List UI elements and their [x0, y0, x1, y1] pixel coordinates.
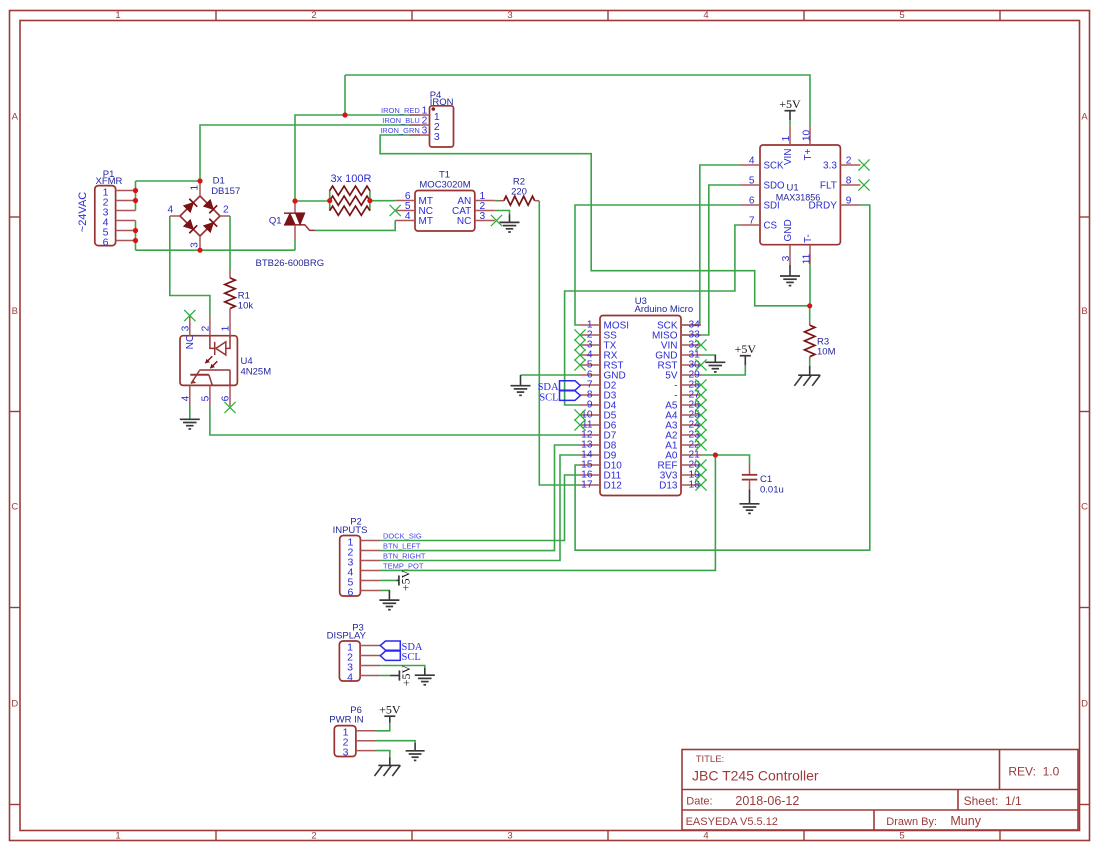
wire P1 pins 4-6 bus	[135, 221, 137, 251]
svg-text:0.01u: 0.01u	[760, 485, 784, 496]
svg-text:1: 1	[221, 325, 232, 331]
svg-text:SCL: SCL	[402, 652, 421, 663]
svg-text:PWR IN: PWR IN	[329, 714, 363, 725]
svg-text:5: 5	[749, 175, 755, 186]
svg-text:D: D	[11, 698, 18, 709]
diode D1 lower-right (3 to 2)	[204, 223, 214, 233]
svg-text:10: 10	[801, 130, 812, 142]
svg-text:1: 1	[115, 10, 120, 21]
svg-text:2018-06-12: 2018-06-12	[735, 794, 799, 808]
svg-text:EASYEDA V5.5.12: EASYEDA V5.5.12	[686, 816, 778, 828]
junction D1 pin1 top	[197, 178, 202, 183]
no-connect X U3 right pin	[695, 359, 706, 370]
svg-text:C1: C1	[760, 474, 772, 485]
wire P2 pin5 to +5V	[380, 579, 396, 581]
diode D1 lower-left (4 to 3)	[184, 220, 194, 230]
junction A0 / TEMP_POT / C1	[713, 452, 718, 457]
svg-text:IRON_RED: IRON_RED	[381, 106, 420, 115]
svg-text:1: 1	[115, 831, 120, 842]
svg-text:Drawn By:: Drawn By:	[886, 816, 937, 828]
net flag SCL at U3 D3	[560, 391, 581, 401]
svg-text:VIN: VIN	[783, 149, 794, 166]
junction T- / R3	[807, 303, 812, 308]
svg-text:BTB26-600BRG: BTB26-600BRG	[256, 258, 325, 269]
wire U3 GND pin31 to ground	[701, 355, 715, 359]
svg-text:D12: D12	[604, 481, 623, 492]
svg-text:~24VAC: ~24VAC	[77, 192, 89, 233]
chassis ground at R3	[809, 366, 811, 375]
svg-text:Sheet: 1/1: Sheet: 1/1	[964, 794, 1022, 808]
wire U4 pin5 to U3 D7 pin12	[210, 406, 580, 435]
no-connect X U3 left pin	[574, 329, 585, 340]
svg-text:4: 4	[168, 205, 174, 216]
junction Q1 MT2 / IRON_RED	[292, 198, 297, 203]
svg-text:9: 9	[846, 195, 852, 206]
svg-text:SDI: SDI	[764, 201, 780, 212]
svg-text:SDO: SDO	[764, 181, 785, 192]
net flag SDA at U3 D2	[560, 381, 581, 391]
no-connect X U3 right pin	[695, 439, 706, 450]
diode D1 upper-left (4 to 1)	[184, 203, 194, 213]
svg-text:3x 100R: 3x 100R	[331, 173, 372, 185]
diode D1 upper-right (1 to 2)	[204, 200, 214, 210]
svg-text:Arduino Micro: Arduino Micro	[635, 304, 694, 315]
wire U1 T- to R3 junction	[809, 265, 811, 306]
net flag SCL at P3 pin2	[380, 651, 400, 660]
svg-text:BTN_LEFT: BTN_LEFT	[383, 541, 421, 550]
no-connect X T1 pin5	[390, 205, 401, 216]
no-connect X U3 right pin	[695, 469, 706, 480]
svg-text:U4: U4	[241, 356, 253, 367]
wire +5V rail to MAX31856 T+ via top	[345, 75, 810, 126]
svg-text:B: B	[12, 306, 18, 317]
wire IRON_RED net: P4 pin1 to Q1 MT2	[295, 115, 420, 201]
svg-text:DRDY: DRDY	[809, 201, 838, 212]
ground T1 CAT	[509, 215, 511, 223]
svg-text:5: 5	[899, 831, 904, 842]
wire TEMP_POT net: P2 pin4 to A0 junction	[380, 455, 715, 570]
svg-text:2: 2	[311, 10, 316, 21]
svg-text:4: 4	[405, 211, 411, 222]
svg-text:SDA: SDA	[538, 382, 559, 393]
wire bottom rail P1 to D1 pin3 to Q1 MT1	[136, 249, 296, 251]
no-connect X U3 right pin	[695, 339, 706, 350]
ground U3 GND pin31	[714, 355, 716, 362]
svg-text:D13: D13	[659, 481, 678, 492]
svg-text:4: 4	[347, 671, 353, 683]
no-connect X U3 right pin	[695, 429, 706, 440]
svg-text:REV: 1.0: REV: 1.0	[1008, 765, 1059, 779]
svg-text:4: 4	[180, 395, 191, 401]
wire BTN_RIGHT net: P2 pin3 to U3 D9 pin14	[380, 455, 580, 561]
svg-text:2: 2	[223, 205, 229, 216]
no-connect X U3 right pin	[695, 479, 706, 490]
no-connect X U3 right pin	[695, 419, 706, 430]
svg-text:NC: NC	[457, 216, 471, 227]
wire P3 pin4 to +5V	[380, 675, 390, 677]
svg-text:TEMP_POT: TEMP_POT	[383, 561, 424, 570]
svg-text:+5V: +5V	[379, 703, 401, 717]
svg-text:IRON_GRN: IRON_GRN	[380, 126, 420, 135]
wire Q1 gate to T1 pin4	[315, 221, 395, 231]
ground C1	[749, 490, 751, 504]
junction IRON_RED / +heater rail	[342, 112, 347, 117]
no-connect X U3 right pin	[695, 459, 706, 470]
svg-text:D: D	[1081, 698, 1088, 709]
wire U3 5V pin29 to +5V	[701, 365, 745, 375]
ground P3 pin3	[424, 668, 426, 675]
wire U1 SCK to U3 SCK pin34	[681, 165, 740, 325]
svg-text:A: A	[1081, 111, 1088, 122]
no-connect X U3 left pin	[574, 359, 585, 370]
wire D1 pin2 down to R1	[229, 216, 231, 270]
svg-text:FLT: FLT	[820, 181, 837, 192]
wire 3x100R right node to T1 pin6	[370, 200, 395, 202]
wire P6 pin2 to ground	[376, 741, 416, 743]
svg-text:BTN_RIGHT: BTN_RIGHT	[383, 551, 426, 560]
wire stub IRON_RED to top rail	[344, 75, 346, 115]
wire U1 CS to U3 D4 pin9	[565, 225, 740, 405]
svg-text:6: 6	[749, 195, 755, 206]
svg-text:C: C	[11, 501, 18, 512]
wire P3 pin3 to ground	[380, 666, 425, 669]
no-connect X U1 pin2 3.3	[858, 159, 869, 170]
svg-text:2: 2	[201, 325, 212, 331]
no-connect X U3 right pin	[695, 409, 706, 420]
U4 internal phototransistor	[199, 369, 230, 371]
svg-text:7: 7	[749, 215, 755, 226]
no-connect X U3 left pin	[574, 339, 585, 350]
wire U1 SDO to U3 MISO pin33	[681, 185, 740, 335]
svg-text:TITLE:: TITLE:	[696, 754, 725, 765]
svg-text:Date:: Date:	[686, 795, 712, 807]
wire P1 secondary top rail to D1 pin1	[136, 180, 201, 182]
svg-text:A: A	[12, 111, 19, 122]
svg-text:3: 3	[343, 746, 349, 758]
wire U1 SDI to U3 MOSI pin1	[575, 205, 740, 325]
ground U4 pin4	[189, 406, 191, 419]
svg-text:3: 3	[480, 211, 486, 222]
svg-text:MOC3020M: MOC3020M	[419, 180, 470, 191]
svg-text:MT: MT	[419, 216, 433, 227]
junction D1 pin3 bottom	[197, 248, 202, 253]
svg-text:1: 1	[781, 135, 792, 141]
no-connect X U3 right pin	[695, 399, 706, 410]
no-connect X U3 right pin	[695, 389, 706, 400]
ground U3 GND pin6	[520, 375, 522, 386]
U4 LED light arrows	[205, 356, 212, 363]
svg-text:3: 3	[507, 10, 512, 21]
ground P6 pin2	[414, 743, 416, 751]
svg-text:5: 5	[201, 395, 212, 401]
no-connect X U3 right pin	[695, 379, 706, 390]
svg-text:5: 5	[899, 10, 904, 21]
power flag +5V rotated at P3 pin4	[390, 675, 399, 677]
no-connect X U3 left pin	[574, 349, 585, 360]
svg-text:4: 4	[749, 155, 755, 166]
ground U1 GND pin3	[789, 265, 791, 276]
no-connect X U3 left pin	[574, 409, 585, 420]
svg-text:DOCK_SIG: DOCK_SIG	[383, 531, 422, 540]
svg-text:+5V: +5V	[399, 569, 413, 591]
svg-text:DISPLAY: DISPLAY	[327, 631, 367, 642]
svg-text:INPUTS: INPUTS	[333, 525, 368, 536]
svg-text:1: 1	[189, 185, 200, 191]
no-connect X U4 pin3	[184, 310, 195, 321]
svg-text:NC: NC	[185, 335, 196, 350]
svg-text:2: 2	[846, 155, 852, 166]
wire U3 A0 pin21 to C1	[701, 455, 750, 464]
svg-text:Q1: Q1	[269, 216, 282, 227]
svg-text:10k: 10k	[238, 300, 254, 311]
svg-text:+5V: +5V	[779, 97, 801, 111]
no-connect X U3 left pin	[574, 419, 585, 430]
junction P1 pin1	[133, 188, 138, 193]
svg-text:Muny: Muny	[950, 814, 981, 828]
chassis ground P6 pin3	[389, 758, 391, 766]
wire P1 pins 1-3 bus	[135, 181, 137, 211]
svg-text:2: 2	[311, 831, 316, 842]
svg-text:4N25M: 4N25M	[241, 367, 272, 378]
svg-text:6: 6	[347, 586, 353, 598]
svg-text:T-: T-	[803, 234, 814, 243]
svg-text:3.3: 3.3	[823, 161, 837, 172]
svg-text:10M: 10M	[817, 347, 836, 358]
no-connect X T1 pin3	[491, 215, 502, 226]
svg-text:B: B	[1081, 306, 1087, 317]
wire P6 pin3 to chassis ground	[376, 751, 390, 758]
svg-text:JBC T245 Controller: JBC T245 Controller	[692, 768, 819, 784]
svg-text:4: 4	[703, 10, 708, 21]
svg-text:6: 6	[103, 236, 109, 248]
svg-text:220: 220	[511, 186, 527, 197]
svg-text:SCL: SCL	[539, 393, 558, 404]
svg-text:GND: GND	[783, 219, 794, 241]
svg-text:3: 3	[434, 131, 440, 143]
junction P1 pin6	[133, 238, 138, 243]
svg-text:+5V: +5V	[735, 342, 757, 356]
svg-text:8: 8	[846, 175, 852, 186]
svg-text:DB157: DB157	[211, 186, 240, 197]
svg-text:17: 17	[581, 480, 593, 491]
wire P6 pin1 to +5V	[376, 723, 390, 731]
wire Q1 gate to 3x100R left node	[295, 200, 330, 202]
svg-text:4: 4	[703, 831, 708, 842]
junction P1 pin5	[133, 228, 138, 233]
power flag +5V rotated at P2 pin5	[397, 579, 399, 581]
P4 pin1 marker dot	[432, 107, 436, 111]
svg-text:3: 3	[422, 126, 428, 137]
wire U3 GND pin6 to ground	[521, 374, 581, 376]
junction P1 pin2	[133, 198, 138, 203]
wire P2 pin6 to ground	[380, 590, 389, 592]
svg-text:C: C	[1081, 501, 1088, 512]
wire IRON_BLU net: P4 pin2 to D1 pin1	[200, 125, 420, 181]
ground P2 pin6	[388, 590, 390, 600]
junction 3x100R right	[367, 198, 372, 203]
svg-text:3: 3	[781, 255, 792, 261]
junction 3x100R left	[327, 198, 332, 203]
wire D1 pin4 to U4 pin2	[170, 216, 210, 316]
wire T1 pin2 CAT to ground	[495, 211, 510, 215]
svg-text:SCK: SCK	[764, 161, 784, 172]
svg-text:18: 18	[689, 480, 701, 491]
title block	[682, 750, 1078, 831]
svg-text:T+: T+	[803, 148, 814, 160]
svg-text:3: 3	[180, 325, 191, 331]
svg-text:3: 3	[189, 242, 200, 248]
no-connect X U4 pin6	[224, 402, 235, 413]
svg-text:+5V: +5V	[399, 664, 413, 686]
no-connect X U1 pin8 FLT	[858, 179, 869, 190]
net flag SDA at P3 pin1	[380, 641, 400, 650]
wire BTN_LEFT net: P2 pin2 to U3 D8 pin13	[380, 445, 580, 551]
svg-text:CS: CS	[764, 221, 778, 232]
U4 internal LED	[226, 336, 230, 349]
svg-text:11: 11	[801, 253, 812, 264]
svg-text:IRON_BLU: IRON_BLU	[382, 116, 420, 125]
svg-text:6: 6	[221, 395, 232, 401]
wire IRON_GRN net: P4 pin3 to T- junction	[380, 135, 810, 306]
wire DOCK_SIG net: P2 pin1 to U3 D11 pin16	[380, 475, 580, 541]
wire R2 to U3 D12 pin17	[539, 201, 580, 485]
wire U1 DRDY to U3 D10 pin15	[575, 205, 870, 550]
svg-text:3: 3	[507, 831, 512, 842]
